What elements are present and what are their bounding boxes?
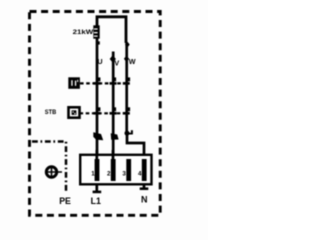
svg-text:STB: STB bbox=[45, 109, 57, 116]
svg-text:2: 2 bbox=[107, 171, 111, 178]
svg-text:L1: L1 bbox=[91, 196, 101, 206]
svg-text:PE: PE bbox=[59, 196, 71, 206]
svg-text:3: 3 bbox=[122, 171, 126, 178]
svg-text:W: W bbox=[129, 57, 136, 66]
svg-text:U: U bbox=[97, 57, 102, 66]
svg-text:N: N bbox=[141, 194, 148, 204]
svg-text:V: V bbox=[114, 59, 119, 68]
svg-text:1: 1 bbox=[91, 171, 95, 178]
svg-text:4: 4 bbox=[138, 171, 142, 178]
svg-text:21kW: 21kW bbox=[73, 29, 95, 36]
